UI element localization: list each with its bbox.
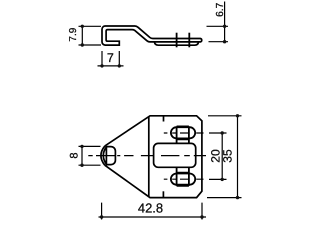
plan view bottom edge tick (162, 191, 164, 197)
dim 42.8 extension lines (102, 203, 202, 220)
dim 42.8 line (99, 216, 207, 218)
side view slot post right (188, 33, 190, 48)
plan view top slot rect and connectors (177, 126, 189, 143)
plan view tab inner arc (103, 147, 106, 164)
plan view top slot stadium (171, 127, 195, 138)
svg-text:7: 7 (107, 51, 114, 65)
dim 7.9 line (81, 26, 83, 45)
dim 35 line (237, 116, 239, 198)
side view boss under plate (154, 42, 198, 45)
dim 35 extension lines (207, 116, 242, 198)
dim 7.9 extension lines (79, 26, 102, 45)
side view sheet profile outline (102, 26, 202, 45)
plan view tab outer arc (101, 146, 105, 165)
dim 6.7 extension lines (207, 26, 229, 41)
dim 8 extension lines (79, 146, 101, 165)
svg-text:6.7: 6.7 (215, 2, 226, 16)
dim 20 extension lines (209, 133, 227, 179)
plan main centerline (88, 155, 206, 157)
svg-text:42.8: 42.8 (138, 201, 163, 216)
bottom slot centerline (164, 178, 204, 180)
dim 7.9 dots (81, 25, 84, 28)
dim 8 line (81, 146, 83, 165)
dim 35 dots (236, 114, 239, 117)
plan view top edge tick (163, 116, 165, 122)
dim 7 dots (100, 64, 103, 67)
plan view central rounded rect (154, 143, 196, 167)
svg-text:7.9: 7.9 (68, 27, 79, 41)
top slot centerline (164, 132, 204, 134)
side view slot post left (176, 33, 178, 48)
svg-text:8: 8 (69, 153, 81, 159)
dim 6.7 line (224, 2, 226, 42)
dim 20 dots (221, 131, 224, 134)
dim 6.7 dots (223, 25, 226, 28)
plan view bottom slot stadium (171, 174, 195, 185)
dim 7 line (98, 65, 124, 67)
dim 8 dots (80, 145, 83, 148)
svg-text:35: 35 (221, 149, 235, 163)
plan view bottom slot rect and connectors (177, 167, 189, 186)
dim 42.8 dots (100, 215, 103, 218)
dim 7 extension lines (102, 51, 119, 67)
dim 20 line (221, 133, 223, 179)
plan view tab D shape (106, 147, 115, 165)
plan view fold line (148, 117, 150, 196)
plan view plate outline with triangle (105, 116, 202, 198)
